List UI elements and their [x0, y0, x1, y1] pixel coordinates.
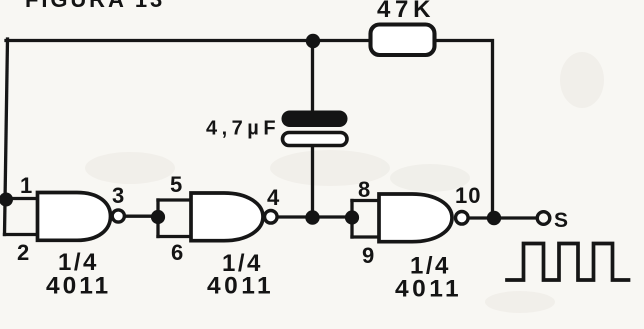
- svg-text:2: 2: [17, 240, 29, 265]
- svg-text:FIGURA 13: FIGURA 13: [25, 0, 165, 12]
- svg-text:10: 10: [455, 183, 481, 208]
- svg-text:6: 6: [171, 240, 183, 265]
- svg-text:9: 9: [362, 243, 374, 268]
- svg-text:5: 5: [170, 172, 182, 197]
- svg-text:8: 8: [358, 177, 370, 202]
- svg-text:4: 4: [267, 185, 280, 210]
- svg-text:1: 1: [20, 173, 32, 198]
- svg-text:4011: 4011: [207, 273, 274, 300]
- svg-text:S: S: [554, 209, 568, 232]
- svg-text:47K: 47K: [377, 0, 435, 23]
- svg-text:4,7µF: 4,7µF: [206, 118, 280, 140]
- svg-text:4011: 4011: [46, 273, 111, 300]
- svg-text:4011: 4011: [395, 276, 462, 303]
- svg-text:3: 3: [112, 183, 124, 208]
